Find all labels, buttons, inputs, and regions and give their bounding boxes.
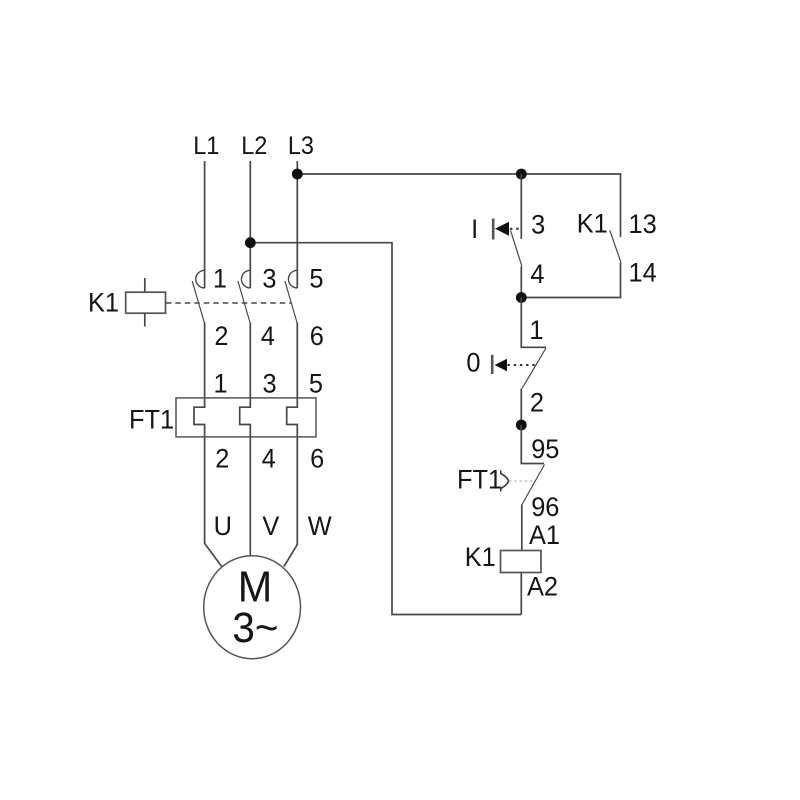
svg-text:6: 6 — [310, 443, 324, 474]
svg-text:L3: L3 — [288, 133, 314, 161]
svg-text:A1: A1 — [529, 519, 560, 550]
wire L2 feeder — [249, 161, 251, 288]
svg-text:0: 0 — [466, 347, 480, 378]
contactor K1 coil (control) — [501, 551, 542, 573]
svg-text:1: 1 — [214, 368, 228, 399]
contactor K1 main contact pole 1 — [196, 270, 205, 288]
svg-text:U: U — [214, 510, 232, 541]
thermal overload FT1 box — [176, 398, 316, 437]
svg-text:2: 2 — [214, 320, 228, 351]
contactor K1 coil (power side) — [144, 278, 146, 292]
motor M 3~ — [204, 556, 301, 659]
svg-text:3: 3 — [531, 209, 545, 240]
svg-text:4: 4 — [262, 443, 276, 474]
contactor K1 main contact pole 2 — [241, 270, 250, 288]
wire L1 feeder — [204, 161, 206, 288]
svg-text:K1: K1 — [577, 208, 608, 239]
svg-text:L2: L2 — [241, 133, 267, 161]
node junction dot on L2 — [245, 237, 256, 248]
stop button 0 contact 1-2 — [521, 298, 546, 348]
svg-text:L1: L1 — [193, 133, 219, 161]
wire pole 2 to overload — [240, 323, 251, 556]
svg-text:96: 96 — [531, 491, 559, 522]
overload FT1 contact 95-96 — [521, 425, 544, 464]
contactor K1 aux contact 13-14 — [610, 230, 621, 262]
svg-text:I: I — [471, 213, 478, 244]
svg-text:95: 95 — [531, 433, 559, 464]
start button actuator — [492, 219, 495, 240]
start button I contact 3-4 — [520, 174, 522, 239]
svg-text:3: 3 — [263, 368, 277, 399]
svg-text:V: V — [262, 510, 279, 541]
svg-text:1: 1 — [529, 314, 543, 345]
svg-text:5: 5 — [309, 368, 323, 399]
svg-text:6: 6 — [310, 320, 324, 351]
wire control return rail from L2 — [250, 243, 521, 615]
svg-text:14: 14 — [629, 257, 657, 288]
svg-text:3: 3 — [262, 263, 276, 294]
svg-text:A2: A2 — [527, 571, 558, 602]
svg-text:3~: 3~ — [232, 603, 278, 651]
contactor K1 main contact pole 3 — [288, 270, 297, 288]
wire pole 3 to overload — [284, 323, 297, 567]
svg-text:4: 4 — [261, 320, 275, 351]
svg-text:4: 4 — [530, 258, 544, 289]
svg-text:13: 13 — [629, 208, 657, 239]
node junction dot start-bottom — [516, 292, 527, 303]
svg-text:2: 2 — [530, 387, 544, 418]
stop button actuator — [491, 355, 494, 374]
svg-text:K1: K1 — [88, 287, 119, 318]
svg-text:FT1: FT1 — [457, 464, 502, 495]
overload actuator symbol — [501, 471, 509, 492]
node junction dot stop-bottom — [516, 420, 527, 431]
wire control top rail from L3 — [297, 174, 620, 237]
svg-text:K1: K1 — [465, 541, 496, 572]
wire pole 1 to overload — [194, 323, 222, 567]
node junction dot on L3 — [292, 169, 303, 180]
svg-text:FT1: FT1 — [129, 404, 174, 435]
wire mechanical dashed link K1 — [166, 302, 291, 304]
node junction dot at start-button top — [516, 169, 527, 180]
svg-text:W: W — [308, 510, 332, 541]
svg-text:5: 5 — [309, 263, 323, 294]
svg-text:2: 2 — [215, 443, 229, 474]
svg-text:1: 1 — [213, 263, 227, 294]
wire L3 feeder — [296, 161, 298, 288]
